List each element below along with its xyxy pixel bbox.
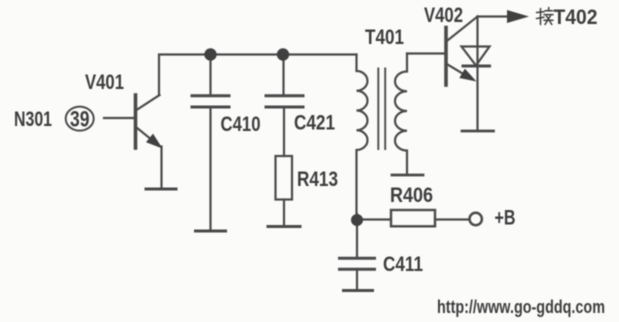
svg-text:N301: N301 bbox=[14, 108, 52, 131]
svg-text:V402: V402 bbox=[424, 4, 463, 27]
svg-text:C421: C421 bbox=[294, 112, 335, 135]
svg-text:http://www.go-gddq.com: http://www.go-gddq.com bbox=[437, 297, 605, 317]
svg-text:T401: T401 bbox=[365, 26, 404, 49]
svg-text:39: 39 bbox=[70, 107, 90, 132]
svg-text:T402: T402 bbox=[554, 6, 598, 29]
svg-text:+B: +B bbox=[495, 207, 516, 230]
svg-text:R413: R413 bbox=[297, 168, 338, 191]
svg-text:R406: R406 bbox=[390, 184, 433, 207]
svg-text:C411: C411 bbox=[383, 253, 423, 276]
svg-text:V401: V401 bbox=[85, 71, 124, 94]
svg-text:C410: C410 bbox=[221, 113, 261, 136]
